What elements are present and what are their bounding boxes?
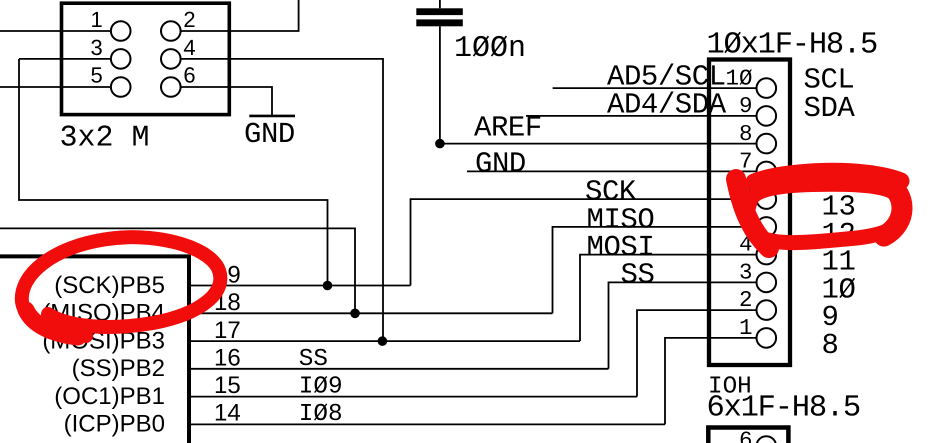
- svg-text:6: 6: [183, 63, 195, 88]
- svg-text:IOH: IOH: [708, 374, 752, 401]
- svg-text:SS: SS: [299, 346, 328, 373]
- svg-text:6: 6: [739, 428, 753, 443]
- svg-text:(OC1)PB1: (OC1)PB1: [54, 383, 165, 410]
- svg-text:AD4/SDA: AD4/SDA: [607, 88, 727, 121]
- svg-text:14: 14: [214, 400, 241, 427]
- svg-text:1Ø: 1Ø: [725, 66, 752, 92]
- svg-text:3: 3: [91, 35, 103, 60]
- svg-text:1: 1: [91, 7, 103, 32]
- svg-text:16: 16: [214, 344, 241, 371]
- svg-text:17: 17: [214, 317, 241, 344]
- svg-text:3: 3: [739, 259, 753, 285]
- svg-text:IØ8: IØ8: [299, 401, 343, 428]
- svg-text:3x2 M: 3x2 M: [60, 121, 150, 155]
- svg-text:8: 8: [822, 329, 839, 362]
- svg-text:SDA: SDA: [804, 92, 856, 125]
- svg-text:1ØØn: 1ØØn: [454, 32, 526, 66]
- svg-text:9: 9: [739, 93, 753, 119]
- svg-text:4: 4: [183, 35, 195, 60]
- svg-text:(SS)PB2: (SS)PB2: [72, 355, 165, 382]
- svg-text:(SCK)PB5: (SCK)PB5: [54, 272, 165, 299]
- svg-text:(ICP)PB0: (ICP)PB0: [64, 411, 165, 438]
- svg-text:1Øx1F-H8.5: 1Øx1F-H8.5: [707, 29, 878, 63]
- svg-text:1: 1: [739, 315, 753, 341]
- svg-text:2: 2: [183, 7, 195, 32]
- svg-text:SS: SS: [621, 259, 655, 292]
- svg-text:8: 8: [739, 121, 753, 147]
- svg-text:15: 15: [214, 372, 241, 399]
- svg-text:5: 5: [91, 63, 103, 88]
- svg-text:AREF: AREF: [474, 111, 542, 144]
- svg-text:IØ9: IØ9: [299, 373, 343, 400]
- svg-text:GND: GND: [475, 147, 526, 180]
- svg-text:GND: GND: [244, 118, 295, 151]
- svg-text:2: 2: [739, 287, 753, 313]
